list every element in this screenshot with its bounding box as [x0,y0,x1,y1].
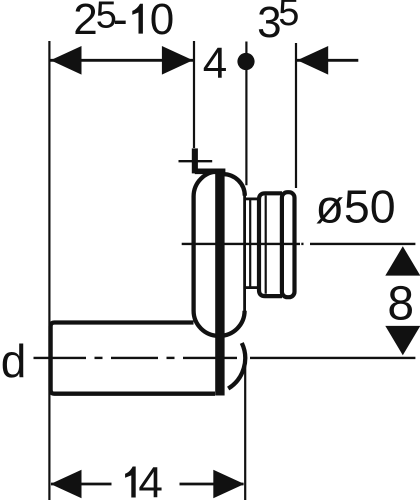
spigot barrel outline [259,193,282,296]
horizontal pipe (inlet tube, d) [51,323,215,394]
svg-text:0: 0 [150,0,174,44]
tab tick line [179,160,213,162]
extension line flange right lower (x=245) [244,357,246,500]
pipe centerline dash-dot [34,357,416,359]
neck top edge [245,197,260,200]
dimension line 14 [51,483,112,486]
spigot centerline (axis of o50 outlet) [182,243,300,245]
arrowhead left of 14 [51,470,82,499]
svg-text:2: 2 [73,0,97,44]
extension line flange left (x=194) [193,41,195,148]
flange capsule right edge (thin) [243,195,246,312]
arrowhead 8 down [385,326,420,355]
arrowhead right of 2.5-10 [162,46,193,75]
spigot end collar [282,192,295,297]
wall plate bar (thick section) [215,169,224,395]
spigot centerline dot [301,243,303,245]
extension line flange right upper with dot [245,42,247,186]
arrowhead right of 14 [213,470,244,499]
svg-text:8: 8 [387,277,414,330]
flange body capsule outline thick part (left, top, bottom, corners) [194,171,245,335]
spigot centerline right segment [310,243,415,245]
svg-text:4: 4 [203,39,227,88]
neck bottom edge [245,286,260,289]
arrowhead 3.5 [297,46,328,75]
tube end cap arc (rounded right end of horizontal pipe behind flange) [228,343,245,389]
svg-text:ø50: ø50 [316,180,396,232]
dimension line 2.5-10 [50,59,193,62]
label 1 of 10 (custom helvetica-style glyph) [132,4,143,34]
svg-text:5: 5 [278,0,299,34]
extension line spigot end (x=296) [295,43,297,188]
svg-text:-: - [113,0,128,44]
top tab [192,148,198,173]
extension line left (x=49) [48,41,50,500]
svg-text:4: 4 [138,459,162,500]
dimension dot [237,53,254,70]
label 1 of 14 (custom helvetica-style glyph) [125,467,136,498]
arrowhead left of 2.5-10 [51,46,82,75]
arrowhead 8 up [385,246,420,275]
flange top flat band [195,169,226,175]
svg-text:d: d [1,335,27,387]
dimension line 3.5 tail [297,59,358,62]
spigot rib line [265,195,267,293]
neck lip vertical [249,198,251,289]
